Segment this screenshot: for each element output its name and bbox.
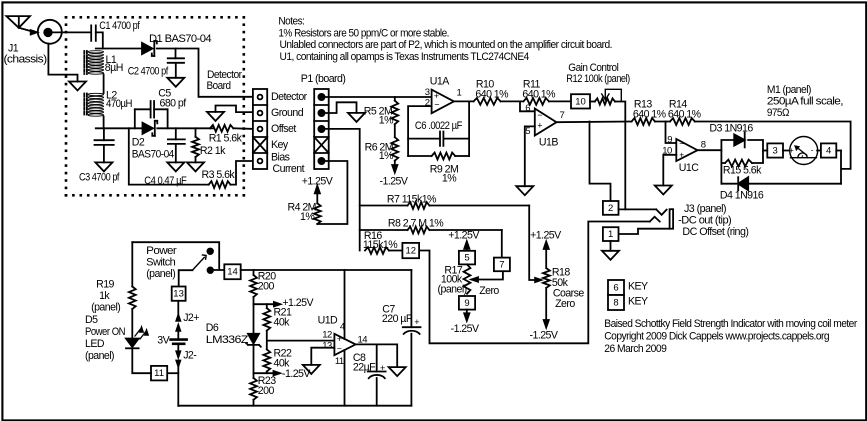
wire D1 cathode to detector out xyxy=(157,49,253,97)
svg-text:Zero: Zero xyxy=(479,285,499,297)
svg-text:Zero: Zero xyxy=(555,298,575,310)
svg-text:1%: 1% xyxy=(442,173,457,185)
connector box 3 xyxy=(767,143,783,157)
svg-text:2: 2 xyxy=(608,203,613,214)
inductor L1 xyxy=(84,51,103,75)
diode D2 BAS70-04 xyxy=(143,121,158,136)
label J2- xyxy=(183,350,197,362)
wire U1C pin9 tap xyxy=(666,122,677,144)
label Power Switch (panel) xyxy=(146,245,177,280)
ground at C3 xyxy=(95,162,112,171)
label Zero xyxy=(479,285,499,297)
label U1D xyxy=(318,315,338,327)
wire box10 to R12 xyxy=(590,101,595,103)
label P1 (board) xyxy=(301,73,346,85)
svg-text:−: − xyxy=(434,100,439,110)
resistor R11 640 xyxy=(523,98,549,105)
label D6 LM336Z xyxy=(206,322,249,346)
svg-text:R12 100k (panel): R12 100k (panel) xyxy=(566,73,630,85)
resistor R6 2M xyxy=(391,137,398,161)
ground at detector connector xyxy=(207,112,224,121)
svg-text:R1 5.6k: R1 5.6k xyxy=(209,133,243,145)
pin 14 label xyxy=(358,334,368,345)
label C8 22uF xyxy=(353,352,376,374)
svg-text:26 March 2009: 26 March 2009 xyxy=(604,343,667,355)
connector box 14 xyxy=(224,264,240,279)
wire ground pin jog xyxy=(216,106,254,113)
resistor R15 5.6k xyxy=(725,160,752,167)
wire D2 left node down xyxy=(129,128,209,184)
svg-text:J2-: J2- xyxy=(183,350,197,362)
ground at U1D pin13 xyxy=(303,365,320,374)
wire box14 to R20 node xyxy=(241,269,412,271)
label J3 (panel) xyxy=(684,203,726,215)
resistor R13 640 xyxy=(632,118,655,125)
label DC Offset (ring) xyxy=(682,226,748,238)
svg-text:U1A: U1A xyxy=(430,76,450,88)
pin dot P1 ground xyxy=(318,110,324,116)
pin 13 label xyxy=(322,340,332,351)
svg-text:−: − xyxy=(537,110,542,120)
wire C5 right leg xyxy=(167,109,169,128)
resistor R7 115k xyxy=(360,202,530,209)
label C2 4700 pf xyxy=(128,65,169,77)
label Offset xyxy=(271,123,296,135)
svg-text:D3 1N916: D3 1N916 xyxy=(709,123,753,135)
pin circle Detector xyxy=(258,95,263,100)
notes line 4 xyxy=(280,51,530,63)
title line 3 xyxy=(604,343,667,355)
label R9 2M 1% xyxy=(430,164,458,185)
wire R21 top xyxy=(266,304,268,308)
wire C1 to D1 node xyxy=(96,32,103,48)
wire R1 to offset pin xyxy=(233,127,253,130)
svg-text:640 1%: 640 1% xyxy=(668,108,702,120)
resistor R19 1k xyxy=(129,242,136,338)
label +1.25V at R17 xyxy=(448,230,480,242)
label C7 220uF xyxy=(382,304,413,326)
label R18 50k xyxy=(552,267,570,290)
svg-text:R15 5.6k: R15 5.6k xyxy=(723,164,762,176)
wire P1 ground jog xyxy=(325,102,357,113)
svg-text:D2: D2 xyxy=(132,137,145,149)
resistor R10 640 xyxy=(474,98,501,105)
wire R11 to box10 xyxy=(549,100,571,102)
svg-text:R7 115k1%: R7 115k1% xyxy=(387,194,437,206)
wire L2 to bottom row xyxy=(103,117,105,129)
wire C5 left leg xyxy=(134,109,136,128)
svg-text:1%: 1% xyxy=(379,150,394,162)
connector box 1 xyxy=(603,227,619,241)
wire R10-R11 xyxy=(501,100,524,102)
R17 wiper xyxy=(472,271,503,282)
wire bottom rail xyxy=(178,405,411,407)
resistor R4 2M xyxy=(314,203,321,224)
label R23 200 xyxy=(258,375,276,397)
connector P2 detector-side housing xyxy=(253,89,267,169)
svg-text:R2 1k: R2 1k xyxy=(200,145,226,157)
LED arrows D5 xyxy=(135,328,148,339)
svg-text:(panel): (panel) xyxy=(85,350,114,362)
wire meter to box4 xyxy=(817,150,821,152)
label J2+ xyxy=(183,312,199,324)
wire sleeve to box1 xyxy=(619,229,670,234)
resistor R21 40k xyxy=(263,308,270,331)
wire C4 tap xyxy=(175,128,177,139)
svg-text:(panel): (panel) xyxy=(91,302,120,314)
wire U1B pin5 xyxy=(525,126,535,186)
svg-text:200: 200 xyxy=(258,281,275,293)
label Detector Board xyxy=(207,69,243,92)
label U1B xyxy=(539,137,558,149)
svg-text:8: 8 xyxy=(613,298,618,309)
wire L1 to L2 xyxy=(103,75,105,94)
connector box 4 xyxy=(821,143,836,157)
pin 7 label xyxy=(560,110,565,121)
svg-text:975Ω: 975Ω xyxy=(767,107,790,119)
label Key xyxy=(271,139,289,151)
capacitor C8 xyxy=(368,344,386,405)
svg-text:+: + xyxy=(380,363,385,373)
R18 bottom arrow xyxy=(544,288,549,328)
label R10 640 1% xyxy=(475,79,509,101)
pin circle Offset xyxy=(258,127,263,132)
pin 10 label xyxy=(662,145,672,156)
wire U1B out to box2 xyxy=(590,122,611,202)
label R1 5.6k xyxy=(209,133,243,145)
svg-text:-1.25V: -1.25V xyxy=(451,323,480,335)
wire R14 to meter loop xyxy=(695,122,851,184)
label R19 1k (panel) xyxy=(91,279,120,314)
label U1A xyxy=(430,76,450,88)
wire R5 top xyxy=(394,97,396,101)
pin 5 label xyxy=(525,126,530,137)
wire J1 to C1 xyxy=(52,31,91,33)
svg-text:Offset: Offset xyxy=(271,123,296,135)
R17 bottom arrow xyxy=(464,310,469,321)
label J1 (chassis) xyxy=(4,42,47,65)
notes line 3 xyxy=(280,39,613,51)
svg-text:4: 4 xyxy=(826,146,831,157)
svg-text:8µH: 8µH xyxy=(105,62,123,74)
connector box 6 KEY xyxy=(608,280,624,295)
wire D6 bottom xyxy=(253,345,255,378)
svg-text:9: 9 xyxy=(667,134,672,145)
wire R20 to +1.25 node xyxy=(253,297,255,304)
wire R4 top xyxy=(315,186,320,204)
svg-text:10: 10 xyxy=(575,96,586,107)
label +1.25V source xyxy=(282,297,314,309)
wire U1B output xyxy=(557,121,632,124)
resistor R18 50k xyxy=(543,268,550,288)
svg-text:6: 6 xyxy=(613,283,618,294)
svg-text:D1 BAS70-04: D1 BAS70-04 xyxy=(149,33,212,45)
pin 1 label xyxy=(457,88,462,99)
ground at U1B xyxy=(516,186,533,195)
wire detector signal to U1A xyxy=(325,96,432,98)
ground at C4 xyxy=(167,162,184,171)
title line 1 xyxy=(604,318,857,330)
detector board dotted border xyxy=(65,16,245,197)
connector box 5 xyxy=(459,251,475,265)
svg-text:14: 14 xyxy=(227,267,238,278)
connector box 8 KEY xyxy=(608,295,624,310)
label L2 470uH xyxy=(106,89,132,110)
svg-text:Key: Key xyxy=(271,139,289,151)
wire box3 to meter xyxy=(783,150,790,152)
connector box 10 xyxy=(571,94,590,108)
resistor R5 2M xyxy=(391,101,398,125)
wire U1C output xyxy=(698,149,722,151)
label U1C xyxy=(679,162,699,174)
label D4 1N916 xyxy=(720,190,764,202)
LED D5 xyxy=(126,339,139,349)
wire R22 bottom xyxy=(266,372,268,374)
wire J1 shell to ground xyxy=(48,44,77,82)
resistor R23 200 xyxy=(250,378,257,400)
svg-text:13: 13 xyxy=(173,289,184,300)
wire R3 to bias pin xyxy=(231,161,254,185)
wire U1D pin4 xyxy=(344,270,346,339)
wire U1A pin2 xyxy=(408,106,432,156)
svg-text:J3 (panel): J3 (panel) xyxy=(684,203,726,215)
wire U1A fb right leg xyxy=(468,101,470,156)
svg-text:Power ON: Power ON xyxy=(85,326,125,338)
diode D3 1N916 xyxy=(734,133,745,148)
pin circle Ground xyxy=(258,111,263,116)
wire L1 top row xyxy=(96,48,142,50)
pin 3 label xyxy=(425,87,430,98)
ground at R2 xyxy=(187,162,204,171)
label R5 2M 1% xyxy=(364,106,394,127)
svg-text:Power: Power xyxy=(146,245,177,257)
svg-text:KEY: KEY xyxy=(628,281,648,293)
svg-text:-1.25V: -1.25V xyxy=(380,176,409,188)
svg-text:Copyright 2009 Dick Cappels ww: Copyright 2009 Dick Cappels www.projects… xyxy=(604,331,829,343)
svg-text:7: 7 xyxy=(560,110,565,121)
svg-text:115k1%: 115k1% xyxy=(363,239,398,251)
pin 6 label xyxy=(525,103,530,114)
svg-text:3: 3 xyxy=(425,87,430,98)
label R17 100k (panel) xyxy=(438,265,467,296)
wire R8 to box7 xyxy=(501,230,503,258)
pin 11 label xyxy=(335,356,344,367)
label R8 2.7M 1% xyxy=(388,218,444,230)
svg-text:C3 4700 pf: C3 4700 pf xyxy=(79,172,120,184)
wire P1 offset xyxy=(325,129,360,251)
capacitor C1 xyxy=(91,25,96,41)
svg-text:Unlabled connectors are part o: Unlabled connectors are part of P2, whic… xyxy=(280,39,613,51)
svg-text:R19: R19 xyxy=(96,279,114,291)
label Detector xyxy=(271,91,308,103)
label -DC out (tip) xyxy=(678,215,731,227)
resistor R1 5.6k xyxy=(210,125,233,132)
svg-text:U1, containing all opamps is T: U1, containing all opamps is Texas Instr… xyxy=(280,51,530,63)
D3-R15 frame xyxy=(721,140,763,184)
label R21 40k xyxy=(274,306,292,328)
svg-text:LED: LED xyxy=(85,338,105,350)
label R6 2M 1% xyxy=(365,141,395,162)
label KEY 8 xyxy=(628,296,648,308)
wire C3 to ground xyxy=(103,145,105,163)
svg-text:BAS70-04: BAS70-04 xyxy=(132,148,175,160)
label C4 0.47 uF xyxy=(144,175,187,187)
svg-text:470µH: 470µH xyxy=(106,98,132,110)
svg-text:+: + xyxy=(414,317,419,327)
label D3 1N916 xyxy=(709,123,753,135)
svg-text:Switch: Switch xyxy=(146,257,176,269)
wire C2 to ground xyxy=(175,63,177,78)
pin 2 label xyxy=(425,98,430,109)
label -1.25V at R6 xyxy=(380,176,409,188)
svg-text:+: + xyxy=(679,149,684,159)
svg-text:3: 3 xyxy=(772,146,777,157)
capacitor C3 xyxy=(95,140,114,145)
svg-text:−: − xyxy=(337,344,342,354)
svg-text:U1C: U1C xyxy=(679,162,699,174)
capacitor C5 xyxy=(135,101,168,118)
svg-text:+1.25V: +1.25V xyxy=(448,230,480,242)
wire box4 right xyxy=(836,150,841,152)
ground at U1C xyxy=(655,186,672,195)
switch dot lower xyxy=(208,267,214,273)
pin 8 label xyxy=(701,139,706,150)
key X P1 xyxy=(314,137,329,153)
svg-text:P1 (board): P1 (board) xyxy=(301,73,346,85)
wire detector bottom row xyxy=(96,127,143,129)
connector P1 housing xyxy=(314,89,329,169)
battery 3V xyxy=(171,340,187,344)
op-amp U1C xyxy=(676,139,697,161)
wire U1D pin13 ground xyxy=(311,348,334,365)
wire battery bottom xyxy=(176,344,180,406)
label R20 200 xyxy=(258,271,276,293)
ground at J1 xyxy=(69,82,86,91)
svg-text:220 µF: 220 µF xyxy=(382,313,413,325)
label C3 4700 pf xyxy=(79,172,120,184)
connector box 12 xyxy=(402,243,419,258)
connector box 13 xyxy=(172,287,186,301)
label R3 5.6k xyxy=(202,169,236,181)
svg-text:(chassis): (chassis) xyxy=(4,53,47,65)
svg-text:+: + xyxy=(537,120,542,130)
svg-text:5: 5 xyxy=(525,126,530,137)
op-amp U1D xyxy=(334,334,355,356)
svg-text:J2+: J2+ xyxy=(183,312,199,324)
resistor R16 115k xyxy=(365,247,402,254)
label D2 BAS70-04 xyxy=(132,137,175,161)
svg-text:U1D: U1D xyxy=(318,315,338,327)
R12 wiper xyxy=(602,89,622,101)
switch arm xyxy=(192,255,206,270)
label R14 640 1% xyxy=(668,99,702,121)
wire U1D pin11 xyxy=(344,350,346,406)
wire R12 end down to panel xyxy=(615,102,625,210)
svg-text:3V: 3V xyxy=(157,335,170,347)
svg-text:6: 6 xyxy=(525,103,530,114)
svg-text:−: − xyxy=(679,139,684,149)
svg-text:2: 2 xyxy=(425,98,430,109)
wire R7 to R18 wiper xyxy=(529,206,541,283)
wire U1B pin6 tap xyxy=(520,101,535,111)
pin 9 label xyxy=(667,134,672,145)
svg-text:1% Resistors are 50 ppm/C or m: 1% Resistors are 50 ppm/C or more stable… xyxy=(278,27,449,39)
svg-text:9: 9 xyxy=(464,298,469,309)
ground at P1 xyxy=(348,113,365,122)
svg-text:(panel): (panel) xyxy=(438,284,467,296)
switch dot upper xyxy=(207,249,213,255)
svg-text:1k: 1k xyxy=(99,290,110,302)
label -1.25V at R17 xyxy=(451,323,480,335)
wire R5-R6 link xyxy=(394,124,396,137)
svg-text:40k: 40k xyxy=(274,316,291,328)
label Coarse Zero xyxy=(553,288,585,310)
svg-text:Baised Schottky Field Strength: Baised Schottky Field Strength Indicator… xyxy=(604,318,857,330)
ground at box1 xyxy=(602,251,619,260)
wire U1D pin12 xyxy=(333,340,335,342)
wire frame to box3 xyxy=(763,150,767,152)
svg-text:640 1%: 640 1% xyxy=(475,88,509,100)
svg-text:R3 5.6k: R3 5.6k xyxy=(202,169,236,181)
pin 4 label xyxy=(340,321,345,332)
connector box 9 xyxy=(459,296,475,310)
label D5 Power ON LED (panel) xyxy=(85,314,125,362)
label R4 2M 1% xyxy=(288,202,316,223)
capacitor C2 xyxy=(168,58,184,63)
svg-text:C2 4700 pf: C2 4700 pf xyxy=(128,65,169,77)
J2+ arrows xyxy=(176,315,180,339)
wire box11 to LED xyxy=(132,350,151,374)
pin dot P1 detector xyxy=(318,94,324,100)
svg-text:Detector: Detector xyxy=(271,91,308,103)
svg-text:640 1%: 640 1% xyxy=(633,108,667,120)
notes line 2 xyxy=(278,27,449,39)
wire D6 top xyxy=(253,304,255,333)
label -1.25V source xyxy=(282,368,311,380)
label D1 BAS70-04 xyxy=(149,33,212,45)
svg-text:1%: 1% xyxy=(300,211,315,223)
wire D1 anode xyxy=(141,48,144,50)
resistor R17 100k xyxy=(464,264,471,293)
wire ring to rail xyxy=(419,222,650,344)
antenna xyxy=(6,16,37,34)
connector box 11 xyxy=(151,366,167,381)
label C5 680 pf xyxy=(158,88,186,110)
svg-text:+: + xyxy=(337,334,342,344)
svg-text:-DC out (tip): -DC out (tip) xyxy=(678,215,731,227)
label Gain Control xyxy=(568,62,618,74)
inductor L2 xyxy=(84,93,103,116)
zener D6 LM336Z xyxy=(246,334,261,347)
svg-text:12: 12 xyxy=(406,246,417,257)
jack J3 ring contact xyxy=(650,217,660,222)
potentiometer R12 xyxy=(595,98,615,104)
svg-text:Board: Board xyxy=(207,80,232,92)
label -1.25V at R18 xyxy=(530,330,559,342)
svg-text:LM336Z: LM336Z xyxy=(206,334,249,346)
connector box 7 xyxy=(494,258,510,272)
pin dot P1 bias xyxy=(318,158,324,164)
wire R23 bottom xyxy=(253,400,255,406)
diode D1 BAS70-04 xyxy=(142,41,157,56)
svg-text:5: 5 xyxy=(464,253,469,264)
wire R20 top xyxy=(253,270,255,275)
pin dot P1 offset xyxy=(318,126,324,132)
resistor R8 2.7M xyxy=(360,227,502,234)
resistor R14 640 xyxy=(670,118,695,125)
svg-text:Ground: Ground xyxy=(271,107,304,119)
label C6 .0022 uF xyxy=(415,120,463,132)
